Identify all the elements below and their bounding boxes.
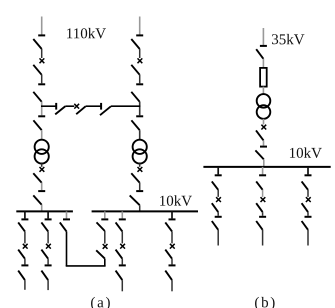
wire [263,119,265,125]
bus-tie left disconnector blade [60,222,67,231]
feeder G1 disconnector blade [212,181,218,189]
feeder G1 disconnector 2 bar [215,216,222,218]
feeder F1 wire [24,259,26,265]
bus-tie right stub [104,211,106,218]
fuse FU1 [260,68,267,87]
bus-tie right disconnector bar [101,218,108,220]
disconnector QS7 blade [131,120,139,130]
disconnector QS6 blade [131,92,139,102]
feeder F2 disconnector 2 bar [45,264,52,266]
wire through bridge node [41,102,43,116]
wire [139,49,141,58]
breaker QF2 x-contact [40,167,45,172]
svg-text:(b): (b) [254,295,277,308]
feeder G1 bus stub [217,167,219,175]
breaker QF4 blade [131,173,139,182]
disconnector QS12 fixed-contact bar [260,146,267,148]
bridge disconnector QS10 fixed-contact bar [100,103,102,110]
disconnector QS8 blade [130,195,140,205]
disconnector QS3 fixed-contact bar [38,115,45,117]
feeder G2 bus stub [262,167,264,175]
feeder G3 disconnector bar [305,174,312,176]
incoming line L1 (110kV) [41,17,43,35]
bus-tie left down wire [66,231,68,266]
bridge breaker QF5 x-contact [74,104,79,109]
feeder G3 bus stub [307,167,309,175]
disconnector QS11 blade [256,49,263,59]
feeder G1 disconnector bar [215,174,222,176]
feeder G2 outgoing line [262,230,264,246]
feeder F3 outgoing line [121,280,123,291]
wire [41,49,43,58]
transformer T1 [35,140,49,154]
10kV bus section I [16,210,73,212]
breaker QF3 x-contact [138,58,143,63]
bridge disconnector QS10 blade [100,106,111,115]
feeder G1 wire [217,212,219,216]
disconnector QS5 fixed-contact bar [136,34,143,36]
wire through bridge node [139,102,141,116]
disconnector QS11 fixed-contact bar [260,45,267,47]
feeder F1 outgoing line [24,280,26,290]
feeder F4 bus stub [171,211,173,218]
disconnector QS2 fixed-contact bar [38,83,45,85]
wire [262,59,264,68]
feeder F1 disconnector 2 bar [21,264,28,266]
svg-text:10kV: 10kV [289,146,323,162]
10kV bus section II [92,210,198,212]
wire [65,105,74,107]
feeder G1 wire [217,190,219,197]
feeder F4 breaker blade [165,250,172,259]
bus-tie breaker blade [96,250,105,258]
feeder F2 wire [47,259,49,265]
feeder G3 wire [307,190,309,197]
feeder G1 breaker x-contact [216,197,221,202]
feeder G2 wire [262,190,264,197]
disconnector QS12 blade [255,150,263,159]
wire [262,87,264,95]
wire [41,183,43,190]
feeder G1 disconnector 2 blade [212,221,218,230]
feeder G3 disconnector 2 blade [302,221,308,230]
incoming line (35kV) [262,28,264,45]
bus-tie bottom wire [66,265,106,267]
feeder G3 disconnector blade [302,181,308,189]
feeder G3 breaker blade [302,203,308,212]
disconnector QS2 blade [33,92,41,102]
breaker QF1 blade [33,65,41,75]
feeder G2 disconnector 2 bar [259,216,266,218]
disconnector QS5 blade [131,39,139,49]
breaker QF4 x-contact [138,167,143,172]
wire to 10kV bus II [139,205,141,210]
disconnector QS1 fixed-contact bar [38,34,45,36]
breaker QF6 blade [256,130,264,140]
feeder F1 breaker x-contact [23,244,28,249]
feeder F4 disconnector 2 blade [165,271,172,281]
feeder G2 wire [262,212,264,216]
transformer T3 [257,94,271,108]
disconnector QS6 fixed-contact bar [136,83,143,85]
feeder F3 breaker blade [116,250,123,259]
feeder G1 outgoing line [217,230,219,246]
bus-tie left stub [66,211,68,218]
feeder F2 bus stub [47,211,49,218]
breaker QF6 x-contact [261,125,266,130]
transformer T2 [133,140,147,154]
bridge breaker QF5 blade [76,106,85,114]
wire [139,75,141,84]
feeder F2 wire [47,231,49,243]
feeder F3 disconnector 2 blade [116,271,123,281]
wire bridge right [111,105,140,107]
wire to 10kV bus [263,159,265,166]
wire [86,105,102,107]
disconnector QS7 fixed-contact bar [136,115,143,117]
breaker QF3 blade [131,65,139,75]
feeder F1 disconnector bar [21,218,28,220]
feeder F3 breaker x-contact [120,244,125,249]
breaker QF1 x-contact [40,58,45,63]
feeder G2 breaker blade [256,203,262,212]
disconnector QS8 fixed-contact bar [136,190,143,192]
feeder F2 outgoing line [47,280,49,290]
svg-text:35kV: 35kV [271,32,305,48]
feeder F2 disconnector 2 blade [41,271,48,281]
feeder G1 breaker blade [212,203,218,212]
feeder F3 disconnector blade [116,222,123,231]
disconnector QS4 fixed-contact bar [38,190,45,192]
bus-tie right up wire [104,259,106,266]
disconnector QS1 blade [33,39,41,49]
feeder F4 outgoing line [171,280,173,291]
feeder F4 breaker x-contact [170,244,175,249]
feeder F2 disconnector bar [45,218,52,220]
wire [41,75,43,84]
feeder F1 disconnector blade [18,222,25,231]
wire [139,183,141,190]
feeder F1 bus stub [24,211,26,218]
feeder G2 breaker x-contact [261,197,266,202]
wire [41,130,43,140]
svg-text:110kV: 110kV [66,26,106,42]
feeder G2 disconnector bar [259,174,266,176]
bus-tie breaker x-contact [103,244,108,249]
feeder F2 disconnector blade [41,222,48,231]
bridge disconnector QS9 blade [55,106,65,114]
feeder F4 wire [171,259,173,265]
feeder F3 wire [121,259,123,265]
wire bridge left [41,105,56,107]
feeder F3 bus stub [121,211,123,218]
feeder G3 wire [307,212,309,216]
incoming line L2 (110kV) [139,17,141,35]
wire [41,164,43,167]
feeder F3 disconnector 2 bar [119,264,126,266]
bus-tie left disconnector bar [63,218,70,220]
wire [139,130,141,140]
bus-tie right wire [104,231,106,244]
wire [263,140,265,145]
disconnector QS4 blade [33,195,41,204]
feeder F1 wire [24,231,26,243]
feeder F2 breaker blade [41,250,48,259]
feeder F2 breaker x-contact [46,244,51,249]
feeder F4 disconnector 2 bar [169,264,176,266]
10kV bus (b) [203,166,330,168]
feeder F4 wire [171,231,173,243]
bus-tie right disconnector blade [97,222,105,231]
feeder G3 breaker x-contact [306,197,311,202]
feeder G2 disconnector 2 blade [256,221,262,230]
feeder G3 disconnector 2 bar [305,216,312,218]
feeder F1 disconnector 2 blade [18,271,25,281]
feeder F4 disconnector bar [169,218,176,220]
svg-text:(a): (a) [90,295,112,308]
feeder G3 outgoing line [307,230,309,246]
breaker QF2 blade [33,173,41,182]
svg-text:10kV: 10kV [159,194,193,210]
bridge disconnector QS9 fixed-contact bar [55,103,57,110]
feeder F4 disconnector blade [165,222,172,231]
disconnector QS3 blade [33,120,41,130]
wire to 10kV bus I [41,205,43,211]
feeder F3 disconnector bar [119,218,126,220]
feeder G2 disconnector blade [256,181,262,189]
feeder F3 wire [121,231,123,243]
feeder F1 breaker blade [18,250,25,259]
wire [139,164,141,167]
